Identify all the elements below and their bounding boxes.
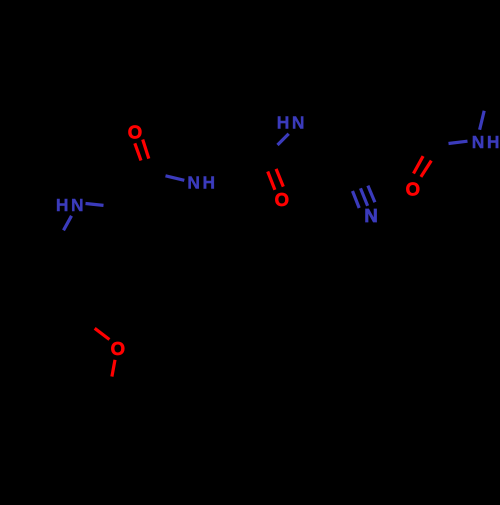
svg-text:NH: NH xyxy=(472,132,500,152)
C=O double bond to O1 (red halves) xyxy=(135,140,149,161)
wire: amide C to N-H (blue half) xyxy=(166,176,185,181)
svg-text:N: N xyxy=(364,205,377,226)
wire: NH2 to methyl carbon (up, blue half) xyxy=(480,111,485,130)
wire: O4 to methyl carbon (up-left, red half) xyxy=(95,328,110,339)
N-methylamide C=O double bond (red halves) xyxy=(414,156,432,177)
wire: amide C to N-methyl N (blue half) xyxy=(449,141,468,143)
svg-text:O: O xyxy=(406,178,420,199)
svg-text:O: O xyxy=(275,189,289,210)
nitrile C#N triple bond (blue halves, three lines) xyxy=(353,186,375,208)
wire: HN1 to ring carbon (down-left, blue half) xyxy=(64,216,72,231)
svg-text:HN: HN xyxy=(277,113,307,133)
formamide C=O double bond (red halves) xyxy=(268,169,284,190)
wire: HN2 to formyl carbon (down-left, blue half) xyxy=(278,134,289,145)
wire: HN1 to alpha carbon (right, blue half) xyxy=(86,204,104,206)
svg-text:HN: HN xyxy=(56,195,86,215)
svg-text:NH: NH xyxy=(187,173,217,193)
svg-text:O: O xyxy=(128,122,142,143)
svg-text:O: O xyxy=(111,338,125,359)
wire: O4 to ring carbon (down, red half) xyxy=(112,360,115,377)
